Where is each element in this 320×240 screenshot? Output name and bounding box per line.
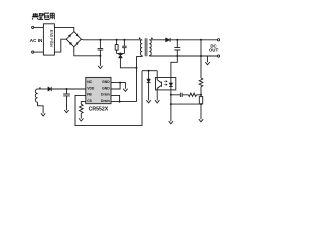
polarity dot primary <box>139 38 141 40</box>
capacitor C5 compensation <box>171 93 189 97</box>
zener D4 <box>148 71 150 79</box>
node cross wire junction <box>170 103 172 105</box>
wire bridge bottom to bulk cap node <box>74 47 101 56</box>
svg-text:OUT: OUT <box>209 48 219 53</box>
svg-text:VDD: VDD <box>87 87 95 91</box>
terminal AC top <box>32 26 34 28</box>
wire sense resistor to ground <box>80 113 82 118</box>
wire secondary return rail <box>149 55 217 57</box>
wire Drain pin top <box>111 95 120 101</box>
svg-text:GND: GND <box>102 87 110 91</box>
svg-text:EMI Filter: EMI Filter <box>49 30 54 48</box>
wire long drop to ground <box>170 95 172 122</box>
ground divider <box>199 119 203 122</box>
node zener bar <box>142 70 157 72</box>
resistor R3 divider upper (zigzag) <box>199 78 203 87</box>
wire aux top to diode <box>38 88 48 90</box>
wire drain line <box>136 56 138 101</box>
wire opto LED cathode down <box>170 90 172 95</box>
wire snubber join <box>117 53 125 55</box>
svg-text:Drain: Drain <box>101 93 110 97</box>
ground IC <box>119 82 121 84</box>
wire CS pin to sense resistor <box>81 102 86 105</box>
wire divider to ground <box>200 104 202 119</box>
opto light arrows <box>164 81 167 86</box>
wire cross connect to divider <box>171 103 201 105</box>
node drain pins junction <box>119 101 121 103</box>
resistor R4 divider lower (box) <box>199 97 202 104</box>
diode D3 output rectifier <box>166 38 171 42</box>
wire AC top to EMI filter <box>34 26 44 28</box>
wire output rail top <box>170 39 217 41</box>
wire output ground stub <box>207 56 209 62</box>
svg-text:CS: CS <box>87 99 92 103</box>
opto LED <box>170 78 172 83</box>
wire EMI bottom to bridge left <box>54 39 66 52</box>
ground output <box>205 62 209 65</box>
opto phototransistor <box>157 78 161 89</box>
diode D1 snubber <box>118 54 122 55</box>
node vdd cap <box>66 88 68 90</box>
resistor R5 compensation (zigzag horizontal) <box>188 93 196 96</box>
wire divider middle <box>200 87 202 97</box>
ground zener <box>146 100 150 103</box>
title 典型应用 (drawn as vector strokes) <box>32 13 54 20</box>
wire Drain pin bottom to drain line <box>111 101 137 103</box>
transformer core <box>145 38 147 56</box>
ground aux winding <box>41 113 45 116</box>
node bulk cap bottom <box>99 55 101 57</box>
capacitor C2 snubber <box>122 40 127 54</box>
svg-text:Drain: Drain <box>101 99 110 103</box>
terminal AC bottom <box>32 51 34 53</box>
transformer T1 secondary winding <box>149 40 151 56</box>
ground opto emitter <box>155 100 159 103</box>
ground bulk cap <box>98 56 102 69</box>
resistor R2 sense (zigzag) <box>80 104 84 113</box>
ground long drop <box>169 121 173 124</box>
diode D2 vdd <box>48 87 51 91</box>
node output cap bottom <box>176 55 178 57</box>
node snubber drain junction <box>136 67 138 69</box>
wire FB pin to bottom rail to zener bar <box>75 71 142 126</box>
node return divider cross <box>200 55 202 57</box>
wire opto emitter to ground <box>156 88 158 100</box>
svg-text:CR552X: CR552X <box>89 106 109 112</box>
svg-text:GND: GND <box>102 80 110 84</box>
EMI filter box <box>43 24 54 55</box>
auxiliary winding L1 <box>35 89 37 102</box>
node snubber join <box>119 53 121 55</box>
node LED cathode RC junction <box>170 94 172 96</box>
svg-text:AC IN: AC IN <box>30 38 43 43</box>
IC U1 CR552X <box>86 77 111 103</box>
transformer T1 primary winding <box>140 40 142 56</box>
wire aux bottom <box>38 102 44 113</box>
wire bridge output rail (DC+ primary) <box>81 38 142 41</box>
node divider top <box>200 39 202 41</box>
wire secondary top to output diode <box>149 39 165 41</box>
capacitor C4 output <box>174 40 180 56</box>
wire divider upper <box>200 40 202 78</box>
polarity dot aux winding <box>39 87 41 89</box>
svg-text:NC: NC <box>87 80 92 84</box>
wire GND pin top <box>111 83 125 89</box>
wire compensation to divider <box>197 94 201 96</box>
bridge rectifier BD1 <box>66 32 81 47</box>
wire GND pin 2 <box>111 83 120 89</box>
svg-text:FB: FB <box>87 93 92 97</box>
terminal DC OUT minus <box>217 55 219 57</box>
capacitor C1 bulk <box>98 40 104 56</box>
wire primary bottom to drain line <box>137 55 143 58</box>
capacitor C3 vdd <box>63 89 70 110</box>
wire diode to VDD pin <box>51 88 86 90</box>
node divider RC junction <box>200 94 202 96</box>
node output cap top <box>176 39 178 41</box>
node rail at bulk cap <box>99 39 101 41</box>
wire snubber to drain line <box>120 58 136 68</box>
terminal DC OUT plus <box>217 39 219 41</box>
ground sense resistor <box>79 118 83 121</box>
node snubber C top <box>123 39 125 41</box>
node divider cross wire junction <box>200 103 202 105</box>
wire secondary bottom to return rail <box>148 55 150 58</box>
ground vdd cap <box>64 110 68 113</box>
wire bar to opto transistor pin <box>156 71 158 78</box>
wire opto LED anode top to return rail <box>171 56 177 78</box>
optocoupler U2 <box>156 78 176 90</box>
wire EMI top to bridge <box>54 27 73 31</box>
polarity dot secondary <box>151 38 153 40</box>
resistor R1 snubber (box) <box>116 40 118 45</box>
node snubber R top <box>116 39 118 41</box>
wire AC bottom to EMI filter <box>34 51 44 53</box>
